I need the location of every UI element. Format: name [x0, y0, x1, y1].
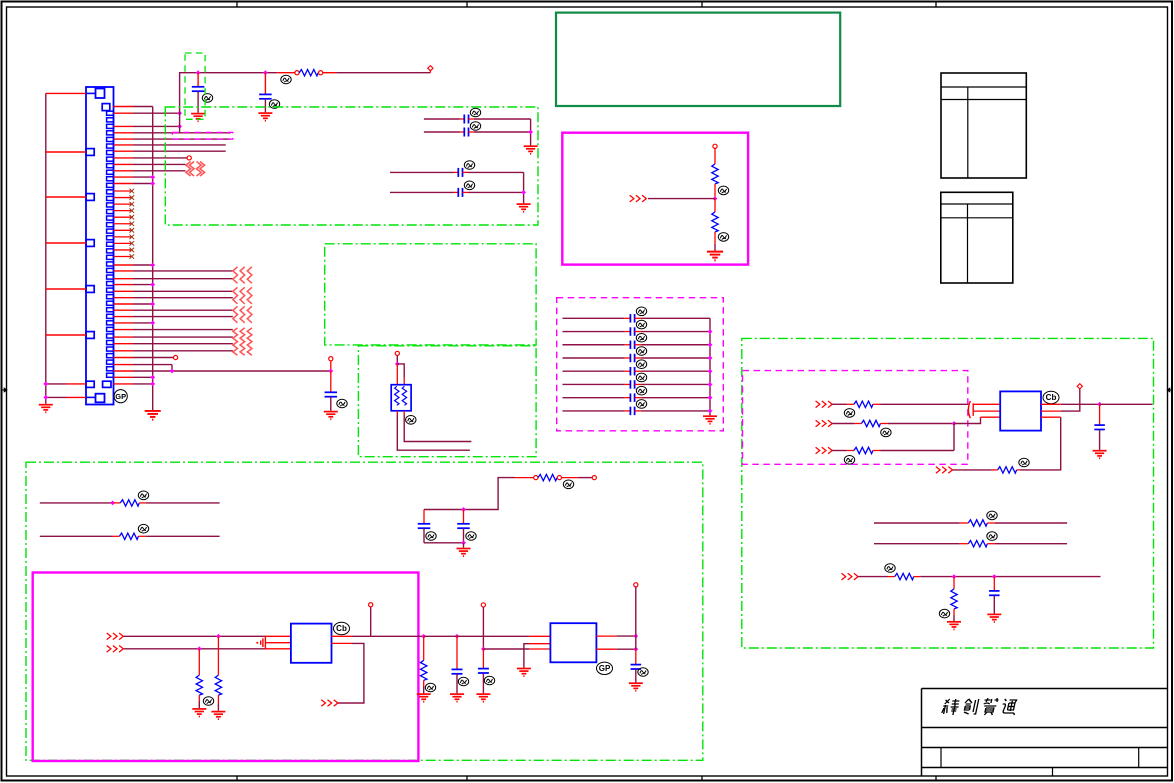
junction — [150, 181, 155, 186]
junction — [150, 263, 155, 268]
capacitor C-byp5 — [630, 367, 634, 376]
port (open circle) — [634, 583, 638, 587]
cap lead — [460, 118, 465, 120]
wire to bus — [642, 410, 711, 412]
pin lead — [114, 329, 134, 331]
label C-m5 — [638, 668, 648, 677]
connector pad — [86, 149, 94, 156]
resistor lead — [423, 636, 425, 660]
wire pin lead — [67, 383, 87, 385]
resistor lead — [873, 403, 881, 405]
capacitor C-m3 — [452, 669, 463, 673]
capacitor C-node — [325, 392, 338, 396]
ground — [524, 146, 538, 154]
ground — [703, 416, 717, 424]
magenta dashed box right — [743, 371, 968, 465]
wire — [424, 131, 460, 133]
pin lead R2 — [332, 642, 353, 644]
junction — [992, 574, 997, 579]
port (open circle) — [713, 144, 717, 148]
resistor lead — [880, 423, 888, 425]
no-connect X — [130, 235, 135, 240]
label R-sh — [939, 609, 949, 618]
connector pad bottom pin-column — [103, 381, 111, 387]
wire to bus — [133, 284, 153, 286]
wire connector left pin — [46, 196, 86, 198]
wire bypass row 8 — [563, 410, 625, 412]
junction — [481, 647, 486, 652]
wire row7 — [133, 150, 226, 152]
wire bypass row 1 — [563, 317, 625, 319]
wire bypass row 3 — [563, 344, 625, 346]
pin lead R1 — [596, 635, 616, 637]
resistor lead — [515, 477, 534, 479]
capacitor lead — [264, 73, 266, 94]
pin lead — [114, 170, 134, 172]
pin lead — [114, 370, 134, 372]
ground — [987, 614, 1001, 622]
cap lead — [625, 397, 631, 399]
ground — [417, 694, 431, 702]
port (open circle) — [295, 71, 299, 75]
label C-p2a — [464, 161, 474, 170]
wire branch to 2nd column — [397, 364, 404, 378]
wire connector left pin — [46, 151, 86, 153]
wire to bus — [133, 376, 153, 378]
resistor R-sh — [951, 589, 957, 609]
cap lead — [463, 171, 469, 173]
wire to termination — [133, 309, 233, 311]
no-connect X — [130, 202, 135, 207]
IC U-m1 — [291, 624, 332, 663]
junction — [713, 196, 718, 201]
border tick top — [236, 2, 238, 8]
label C-m3 — [458, 677, 468, 686]
cap lead — [463, 510, 465, 524]
no-connect X — [130, 241, 135, 246]
net chevrons — [816, 420, 833, 427]
junction — [952, 574, 957, 579]
pin lead L1 — [265, 635, 291, 637]
port above U-m1 output — [370, 607, 372, 637]
pin lead (NC) — [114, 242, 132, 244]
cap lead — [463, 191, 469, 193]
label U-m2 — [597, 662, 613, 674]
capacitor C-a — [192, 87, 205, 91]
pin lead R2 — [596, 648, 616, 650]
port (open circle) — [592, 476, 596, 480]
wire — [217, 704, 219, 711]
wire bypass row 6 — [563, 383, 625, 385]
capacitor C-byp1 — [630, 314, 634, 323]
pin lead — [114, 157, 134, 159]
port (open circle) — [481, 603, 485, 607]
wire row9 — [133, 163, 186, 165]
wire pin lead — [67, 396, 87, 398]
connector pad — [86, 332, 94, 339]
connector CN1 pin 1 pad — [96, 89, 105, 99]
wire R-rowB — [874, 543, 960, 545]
junction — [952, 421, 957, 426]
port (open circle) — [319, 71, 323, 75]
pin lead (NC) — [114, 229, 132, 231]
junction — [150, 282, 155, 287]
port (open circle) — [329, 357, 333, 361]
resistor R-r1 — [854, 401, 873, 407]
pin lead — [114, 350, 134, 352]
termination squiggle — [190, 162, 195, 177]
resistor lead — [323, 72, 336, 74]
wire corner to ground — [523, 172, 525, 203]
junction — [708, 356, 713, 361]
cap lead — [635, 410, 642, 412]
capacitor C-m1 — [418, 524, 431, 528]
junction — [528, 130, 533, 135]
pin lead — [114, 376, 134, 378]
wire — [198, 701, 200, 708]
wire row5 — [133, 138, 231, 140]
magenta block box bottom-left — [33, 573, 419, 762]
resistor R-mid — [538, 474, 557, 480]
wire — [952, 469, 992, 471]
wire to bus — [133, 303, 153, 305]
resistor lead — [992, 469, 998, 471]
wire — [616, 635, 636, 637]
capacitor C-m4 — [478, 669, 489, 673]
wire — [474, 131, 531, 133]
lead into resistor pack — [396, 364, 398, 385]
capacitor C-p2a — [458, 168, 462, 177]
pin lead — [114, 278, 134, 280]
wire — [46, 396, 67, 398]
port (open circle) — [534, 476, 538, 480]
termination squiggle — [233, 287, 238, 304]
wire R-row3 — [832, 450, 847, 452]
title block divider — [1052, 768, 1054, 777]
port (open circle) — [369, 603, 373, 607]
wire connector left pin — [46, 334, 86, 336]
resistor R-r2 — [861, 420, 880, 426]
wire R-row1 — [832, 403, 847, 405]
resistor R-b — [968, 541, 987, 547]
border tick top — [466, 2, 468, 8]
coupling cap symbol (red) — [968, 401, 973, 418]
label R-m3 — [425, 683, 435, 692]
connector CN1 body — [86, 87, 114, 405]
wire bypass row 5 — [563, 370, 625, 372]
label R-bl1 — [138, 491, 148, 500]
wire — [146, 502, 220, 504]
junction — [708, 409, 713, 414]
wire row12 — [133, 183, 153, 185]
IC U-r1 — [1000, 391, 1041, 430]
pin lead (NC) — [114, 223, 132, 225]
capacitor lead — [197, 92, 199, 113]
pin lead — [114, 150, 134, 152]
resistor lead — [873, 450, 881, 452]
lead into resistor pack col2 — [403, 378, 405, 385]
pin lead L1 U-m2 — [529, 635, 550, 637]
pin lead — [114, 357, 134, 359]
connector CN1 refdes GP — [114, 390, 127, 403]
pin lead — [114, 183, 134, 185]
svg-text:Cb: Cb — [336, 624, 347, 633]
green group box top-left — [165, 107, 538, 225]
wire node — [635, 587, 637, 649]
cap lead — [635, 383, 642, 385]
port (open circle) — [557, 476, 561, 480]
resistor R-r3 — [854, 447, 873, 453]
no-connect X — [130, 189, 135, 194]
resistor lead — [562, 477, 579, 479]
no-connect X — [130, 208, 135, 213]
connector CN1 top pin pad — [102, 104, 110, 111]
pin lead — [114, 336, 134, 338]
label C-byp1 — [636, 307, 646, 316]
termination squiggle — [186, 162, 191, 177]
wire to bus — [133, 264, 153, 266]
port lead — [396, 356, 398, 364]
junction — [43, 395, 48, 400]
termination squiggle — [240, 328, 245, 355]
pin lead — [114, 297, 134, 299]
label C-m2 — [466, 532, 476, 541]
company logo text (CJK strokes) — [941, 698, 1018, 715]
pin lead — [114, 322, 134, 324]
label U-r1 — [1043, 391, 1059, 403]
no-connect X — [130, 228, 135, 233]
cap lead — [1099, 404, 1101, 424]
ground — [1093, 451, 1107, 459]
pin lead — [114, 343, 134, 345]
cap lead — [635, 317, 642, 319]
no-connect X — [130, 195, 135, 200]
resistor R-fb — [998, 467, 1017, 473]
wire row4 — [133, 132, 231, 134]
label RP1 — [406, 416, 416, 425]
border tick bottom — [236, 776, 238, 781]
ground — [39, 405, 53, 413]
pin lead (NC) — [114, 249, 132, 251]
resistor lead — [847, 403, 854, 405]
label C-byp5 — [636, 360, 646, 369]
label C-p1b — [470, 122, 480, 131]
junction — [150, 175, 155, 180]
wire — [888, 423, 954, 425]
wire connector left pin — [46, 242, 86, 244]
wire to termination — [133, 350, 233, 352]
ground — [517, 669, 531, 677]
pin lead R2 — [1041, 410, 1061, 412]
wire to bus — [642, 317, 711, 319]
resistor R-c — [895, 573, 914, 579]
pin lead R1 — [1041, 403, 1061, 405]
ground — [192, 709, 206, 717]
label R-r1 — [844, 409, 854, 418]
termination squiggle — [247, 306, 252, 323]
revision table 1 — [941, 73, 1026, 178]
capacitor C-sh — [989, 591, 1000, 595]
wire to termination — [133, 278, 233, 280]
junction — [170, 369, 175, 374]
cap lead — [635, 331, 642, 333]
wire — [616, 648, 636, 650]
pin lead — [114, 284, 134, 286]
wire corner up — [953, 424, 955, 451]
cap lead — [423, 529, 425, 543]
analog reference bars — [261, 636, 266, 650]
pin lead (NC) — [114, 190, 132, 192]
title block divider — [940, 748, 942, 768]
junction — [395, 362, 400, 367]
resistor R-div1 — [712, 164, 718, 184]
label C-a — [202, 94, 212, 103]
ground — [258, 113, 272, 121]
cap lead — [993, 577, 995, 591]
pin lead — [114, 264, 134, 266]
resistor R-m1 — [196, 675, 202, 695]
cap lead — [330, 371, 332, 392]
wire to bus — [133, 383, 153, 385]
ground — [324, 412, 338, 420]
resistor R-bl2 — [119, 533, 138, 539]
pin lead — [114, 270, 134, 272]
connector pad bottom — [96, 394, 105, 403]
net chevrons — [630, 195, 647, 202]
wire — [424, 118, 460, 120]
cap lead — [993, 596, 995, 614]
label R-top — [281, 75, 291, 84]
pin lead — [114, 383, 134, 385]
net chevrons — [936, 467, 953, 474]
cap lead — [330, 397, 332, 411]
resistor lead — [714, 199, 716, 212]
wire to termination — [133, 270, 233, 272]
net chevrons — [107, 633, 124, 640]
wire row3 — [133, 125, 180, 127]
bypass cap bank bus — [709, 318, 711, 415]
pin lead L1 — [973, 403, 1000, 405]
resistor lead — [888, 576, 895, 578]
label C-m1 — [426, 532, 436, 541]
ground — [191, 114, 205, 122]
wire to ground — [463, 543, 465, 548]
termination squiggle — [233, 306, 238, 323]
wire row — [133, 357, 173, 359]
no-connect X — [130, 248, 135, 253]
connector pad link bottom — [86, 396, 96, 398]
cap lead — [1099, 430, 1101, 450]
label C-p2b — [464, 181, 474, 190]
resistor lead — [217, 636, 219, 675]
capacitor C-byp2 — [630, 327, 634, 336]
wire — [390, 191, 454, 193]
label C-byp6 — [636, 373, 646, 382]
no-connect X — [130, 221, 135, 226]
junction — [43, 382, 48, 387]
wire row10 — [133, 170, 186, 172]
pin lead (NC) — [114, 236, 132, 238]
wire to bus — [642, 357, 711, 359]
ground — [947, 622, 961, 630]
pin lead — [114, 364, 134, 366]
wire to bus — [133, 322, 153, 324]
junction — [461, 507, 466, 512]
cap lead — [454, 171, 459, 173]
wire row11 — [133, 176, 153, 178]
wire — [424, 542, 464, 544]
cap lead — [625, 317, 631, 319]
resistor lead — [714, 184, 716, 199]
wire BL-row1 — [40, 502, 114, 504]
resistor lead — [198, 649, 200, 675]
label C-byp4 — [636, 347, 646, 356]
label R-r2 — [881, 428, 891, 437]
pin lead L2 U-m2 — [529, 643, 550, 645]
capacitor C-b — [259, 94, 272, 98]
resistor lead — [139, 502, 146, 504]
border arrow left — [2, 389, 5, 391]
wire to termination — [133, 297, 233, 299]
wire R-row2 — [832, 423, 855, 425]
ground — [707, 252, 723, 261]
port (diamond) — [1077, 384, 1082, 389]
resistor R-m3 — [421, 660, 427, 680]
wire — [423, 687, 425, 693]
capacitor lead — [264, 99, 266, 112]
pin lead — [114, 112, 134, 114]
port (diamond) — [428, 66, 433, 71]
svg-text:Cb: Cb — [1046, 393, 1057, 402]
wire to port — [336, 72, 430, 74]
cap lead — [635, 649, 637, 664]
wire bypass row 2 — [563, 331, 625, 333]
junction — [196, 70, 201, 75]
ground — [457, 549, 471, 557]
junction arrow — [177, 124, 182, 129]
wire row2 — [133, 112, 180, 114]
wire to bus — [642, 344, 711, 346]
magenta group box (bypass caps) — [557, 298, 724, 431]
resistor R-top — [299, 70, 318, 76]
cap lead — [460, 131, 465, 133]
connector pad bottom-left — [86, 381, 94, 387]
termination squiggle — [233, 267, 238, 284]
green group box middle (empty) — [325, 244, 536, 345]
no-connect X — [130, 215, 135, 220]
junction — [150, 375, 155, 380]
label R-mid — [563, 480, 573, 489]
label R-c — [885, 564, 895, 573]
resistor lead — [987, 543, 995, 545]
junction — [633, 647, 638, 652]
lead below pack col2 — [403, 411, 405, 415]
wire corner RC mid — [424, 478, 515, 510]
svg-text:GP: GP — [599, 664, 611, 673]
wire main out — [352, 635, 424, 637]
termination squiggle — [200, 162, 205, 177]
capacitor C-byp3 — [630, 341, 634, 350]
resistor lead — [113, 502, 120, 504]
capacitor C-p1b — [464, 128, 468, 137]
cap lead — [625, 410, 631, 412]
label R-div2 — [718, 233, 728, 242]
cap lead — [625, 331, 631, 333]
top power rail wire — [180, 73, 278, 133]
wire divider tap — [648, 198, 715, 200]
border tick bottom — [466, 776, 468, 781]
wire row8 — [133, 157, 187, 159]
